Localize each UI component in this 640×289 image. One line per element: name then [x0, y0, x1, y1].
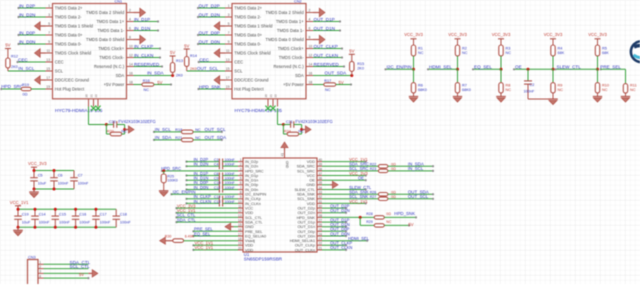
svg-text:IN_SCL: IN_SCL — [18, 66, 35, 71]
svg-text:24: 24 — [319, 232, 323, 236]
svg-text:37: 37 — [319, 172, 323, 176]
svg-text:OUT_SCL: OUT_SCL — [205, 127, 227, 132]
svg-text:0Ω: 0Ω — [23, 93, 28, 97]
svg-text:4: 4 — [309, 17, 311, 21]
svg-text:R24: R24 — [284, 129, 291, 133]
svg-text:17: 17 — [238, 232, 242, 236]
svg-text:TMDS Data 1+: TMDS Data 1+ — [276, 19, 304, 24]
svg-text:OUT_D0P: OUT_D0P — [199, 30, 220, 35]
svg-text:TMDS Data 0 Shield: TMDS Data 0 Shield — [86, 37, 125, 42]
svg-text:R23: R23 — [370, 167, 377, 171]
svg-text:11: 11 — [226, 49, 230, 53]
svg-text:12: 12 — [309, 53, 313, 57]
svg-text:VCC_1V1: VCC_1V1 — [349, 199, 368, 204]
svg-text:NC: NC — [462, 51, 468, 55]
svg-text:IN_D1N: IN_D1N — [134, 26, 150, 31]
svg-text:NC: NC — [121, 130, 127, 134]
svg-text:9: 9 — [240, 195, 242, 199]
svg-text:OUT_SDA: OUT_SDA — [205, 135, 228, 140]
svg-text:R30: R30 — [165, 235, 172, 239]
svg-text:VCC_1V1: VCC_1V1 — [10, 200, 29, 205]
svg-text:C11: C11 — [214, 186, 220, 190]
svg-text:R28: R28 — [366, 212, 373, 216]
svg-text:26: 26 — [319, 223, 323, 227]
svg-text:OUT_CLKP: OUT_CLKP — [314, 44, 338, 49]
svg-text:R29: R29 — [366, 220, 373, 224]
svg-text:VCC_3V3: VCC_3V3 — [448, 32, 467, 37]
svg-text:C17: C17 — [100, 212, 107, 216]
svg-text:PRE_SEL: PRE_SEL — [600, 65, 621, 70]
svg-text:OUT_SDA: OUT_SDA — [325, 71, 348, 76]
svg-text:TMDS Data 2+: TMDS Data 2+ — [234, 6, 262, 11]
svg-text:FV42X103K102EFG: FV42X103K102EFG — [118, 119, 155, 124]
svg-text:R9: R9 — [558, 83, 563, 87]
svg-text:R7: R7 — [462, 83, 467, 87]
svg-text:NC: NC — [558, 88, 564, 92]
svg-text:GND: GND — [285, 161, 289, 169]
svg-text:2: 2 — [309, 8, 311, 12]
svg-text:10: 10 — [129, 44, 133, 48]
svg-text:17: 17 — [46, 76, 50, 80]
svg-text:HPD_SRC: HPD_SRC — [1, 84, 24, 89]
svg-text:+5V Power: +5V Power — [104, 82, 125, 87]
svg-text:100nF: 100nF — [58, 181, 69, 185]
svg-text:R4: R4 — [558, 46, 563, 50]
svg-text:OUT_D0N: OUT_D0N — [199, 39, 220, 44]
svg-text:TMDS Data 1 Shield: TMDS Data 1 Shield — [55, 24, 94, 29]
svg-text:5: 5 — [240, 177, 242, 181]
svg-text:7: 7 — [228, 31, 230, 35]
svg-text:R16: R16 — [143, 79, 150, 83]
svg-text:CEC: CEC — [18, 57, 28, 62]
svg-text:C18: C18 — [120, 212, 127, 216]
svg-text:C5: C5 — [38, 173, 43, 177]
svg-text:21: 21 — [319, 246, 323, 250]
svg-text:RESERVED: RESERVED — [314, 62, 340, 67]
svg-text:17: 17 — [226, 76, 230, 80]
svg-text:IN_SDA: IN_SDA — [155, 135, 173, 140]
svg-text:OUT_CLKN: OUT_CLKN — [314, 53, 339, 58]
svg-text:10uF: 10uF — [38, 181, 47, 185]
svg-text:100nF: 100nF — [120, 220, 131, 224]
svg-text:14: 14 — [129, 62, 133, 66]
svg-text:I2C_EN/PIN: I2C_EN/PIN — [173, 190, 196, 195]
svg-text:8: 8 — [129, 35, 131, 39]
svg-text:100nF: 100nF — [59, 220, 70, 224]
svg-text:OUT_SCL: OUT_SCL — [197, 66, 219, 71]
svg-text:22: 22 — [319, 242, 323, 246]
svg-text:C15: C15 — [59, 212, 66, 216]
svg-text:R19: R19 — [22, 83, 29, 87]
svg-text:TMDS Data 2+: TMDS Data 2+ — [55, 6, 83, 11]
svg-text:IN_D0N: IN_D0N — [194, 185, 209, 190]
svg-text:OUT_D1P: OUT_D1P — [314, 17, 335, 22]
svg-text:2: 2 — [39, 265, 41, 269]
svg-text:4: 4 — [39, 274, 41, 278]
svg-text:SLEW_CTL: SLEW_CTL — [557, 65, 582, 70]
svg-text:NC: NC — [602, 88, 608, 92]
svg-text:NC: NC — [418, 51, 424, 55]
svg-text:VDD: VDD — [245, 247, 253, 252]
svg-text:R1: R1 — [418, 46, 423, 50]
svg-text:15: 15 — [238, 223, 242, 227]
svg-text:NC: NC — [144, 88, 150, 92]
svg-text:3: 3 — [48, 13, 50, 17]
svg-text:14: 14 — [309, 62, 313, 66]
svg-text:TMDS Data 1+: TMDS Data 1+ — [96, 19, 124, 24]
svg-text:C13: C13 — [214, 200, 221, 204]
svg-text:TMDS Data 1-: TMDS Data 1- — [277, 28, 304, 33]
svg-text:1: 1 — [228, 4, 230, 8]
svg-text:R10: R10 — [602, 83, 609, 87]
svg-text:SCL: SCL — [55, 69, 64, 74]
svg-text:VCC_3V3: VCC_3V3 — [544, 32, 563, 37]
svg-text:35: 35 — [319, 181, 323, 185]
svg-text:1: 1 — [48, 4, 50, 8]
svg-text:10uF: 10uF — [22, 220, 31, 224]
svg-text:IN_D1P: IN_D1P — [134, 17, 150, 22]
svg-text:100nF: 100nF — [39, 220, 50, 224]
svg-text:100nF: 100nF — [225, 177, 236, 181]
svg-text:R2: R2 — [462, 46, 467, 50]
svg-text:40: 40 — [319, 158, 323, 162]
svg-text:C21: C21 — [286, 120, 293, 124]
svg-text:100nF: 100nF — [524, 90, 535, 94]
svg-text:18: 18 — [129, 80, 133, 84]
svg-text:TMDS Clock Shield: TMDS Clock Shield — [55, 51, 92, 56]
svg-text:TMDS Clock-: TMDS Clock- — [99, 55, 124, 60]
svg-text:C8: C8 — [214, 172, 219, 176]
svg-text:16: 16 — [129, 71, 133, 75]
svg-text:1: 1 — [240, 158, 242, 162]
svg-text:28: 28 — [319, 214, 323, 218]
svg-text:6: 6 — [129, 26, 131, 30]
svg-text:29: 29 — [319, 209, 323, 213]
svg-text:C10: C10 — [214, 181, 221, 185]
svg-text:5V: 5V — [5, 43, 10, 48]
svg-text:OE: OE — [358, 176, 364, 181]
svg-text:100nF: 100nF — [79, 220, 90, 224]
svg-text:5: 5 — [228, 22, 230, 26]
svg-text:2K0: 2K0 — [190, 67, 197, 71]
svg-text:EQ_SEL: EQ_SEL — [474, 65, 492, 70]
svg-text:IN_D0N: IN_D0N — [19, 39, 35, 44]
svg-text:IN_SDA: IN_SDA — [147, 71, 165, 76]
svg-text:100nF: 100nF — [78, 181, 89, 185]
svg-text:68K: 68K — [602, 51, 609, 55]
svg-text:TMDS Data 1 Shield: TMDS Data 1 Shield — [234, 24, 273, 29]
svg-text:IN_CLKN: IN_CLKN — [194, 199, 212, 204]
svg-text:OUT_D0N: OUT_D0N — [330, 231, 350, 236]
svg-text:38: 38 — [319, 167, 323, 171]
svg-text:R14: R14 — [190, 54, 197, 58]
svg-text:CEC: CEC — [199, 57, 209, 62]
svg-text:30: 30 — [319, 205, 323, 209]
svg-text:NC: NC — [298, 130, 304, 134]
svg-text:6.49K: 6.49K — [185, 235, 195, 239]
svg-text:C2: C2 — [530, 83, 535, 87]
svg-text:VCC_1V1: VCC_1V1 — [195, 245, 214, 250]
svg-text:SDA: SDA — [116, 73, 125, 78]
svg-text:C20: C20 — [109, 120, 116, 124]
svg-text:16: 16 — [238, 228, 242, 232]
svg-text:5V: 5V — [79, 272, 84, 277]
svg-text:R17: R17 — [324, 79, 331, 83]
svg-text:TMDS Data 0-: TMDS Data 0- — [234, 42, 261, 47]
svg-text:12: 12 — [129, 53, 133, 57]
svg-text:C12: C12 — [214, 195, 221, 199]
svg-text:OUT_CLKn: OUT_CLKn — [295, 247, 315, 252]
svg-text:R27: R27 — [370, 195, 377, 199]
svg-text:R11: R11 — [630, 84, 637, 88]
svg-text:R12: R12 — [11, 54, 18, 58]
svg-text:2K0: 2K0 — [176, 74, 183, 78]
svg-text:13: 13 — [226, 58, 230, 62]
svg-text:3: 3 — [240, 167, 242, 171]
svg-text:TMDS Data 2 Shield: TMDS Data 2 Shield — [266, 10, 305, 15]
svg-text:100nF: 100nF — [225, 181, 236, 185]
svg-text:8: 8 — [240, 191, 242, 195]
svg-text:13: 13 — [46, 58, 50, 62]
svg-text:7: 7 — [240, 186, 242, 190]
svg-text:18: 18 — [238, 237, 242, 241]
svg-text:100nF: 100nF — [225, 163, 236, 167]
svg-text:39: 39 — [319, 163, 323, 167]
svg-text:3: 3 — [39, 270, 41, 274]
svg-text:19: 19 — [238, 242, 242, 246]
svg-text:100nF: 100nF — [225, 195, 236, 199]
svg-text:SDA_CTL: SDA_CTL — [177, 217, 197, 222]
svg-text:NC: NC — [506, 51, 512, 55]
svg-text:11: 11 — [238, 205, 242, 209]
svg-text:Reserved (N.C.): Reserved (N.C.) — [94, 64, 125, 69]
svg-text:C7: C7 — [78, 173, 83, 177]
svg-text:C19: C19 — [22, 212, 29, 216]
svg-text:25: 25 — [319, 228, 323, 232]
svg-text:TMDS Data 2-: TMDS Data 2- — [234, 15, 261, 20]
svg-text:68K0: 68K0 — [418, 88, 427, 92]
svg-text:2: 2 — [129, 8, 131, 12]
svg-text:27: 27 — [319, 219, 323, 223]
svg-text:32: 32 — [319, 195, 323, 199]
svg-text:23: 23 — [319, 237, 323, 241]
svg-text:TMDS Data 2 Shield: TMDS Data 2 Shield — [86, 10, 125, 15]
svg-text:100nF: 100nF — [225, 186, 236, 190]
svg-text:OUT_SCL: OUT_SCL — [408, 194, 429, 199]
svg-text:4: 4 — [129, 17, 131, 21]
svg-text:R5: R5 — [602, 46, 607, 50]
svg-text:VCC_3V3: VCC_3V3 — [588, 32, 607, 37]
svg-text:SCL_CTL: SCL_CTL — [70, 264, 91, 269]
svg-text:SN65DP159RSBR: SN65DP159RSBR — [244, 257, 283, 262]
svg-text:IN_D2N: IN_D2N — [19, 12, 35, 17]
svg-text:IN_SCL: IN_SCL — [408, 166, 424, 171]
svg-text:SCL: SCL — [234, 69, 243, 74]
svg-text:5V: 5V — [157, 80, 162, 85]
svg-text:34: 34 — [319, 186, 323, 190]
svg-text:68K0: 68K0 — [462, 88, 471, 92]
svg-text:2K0: 2K0 — [357, 67, 364, 71]
svg-text:NC: NC — [386, 220, 392, 224]
svg-text:33: 33 — [319, 191, 323, 195]
svg-text:HYC79-HDMIA19-105: HYC79-HDMIA19-105 — [235, 108, 283, 114]
svg-text:5: 5 — [48, 22, 50, 26]
svg-text:7: 7 — [48, 31, 50, 35]
svg-text:22: 22 — [94, 94, 98, 98]
svg-text:TMDS Clock-: TMDS Clock- — [279, 55, 304, 60]
svg-text:2K0: 2K0 — [11, 65, 18, 69]
svg-text:+5V Power: +5V Power — [283, 82, 304, 87]
svg-text:100nF: 100nF — [225, 158, 236, 162]
svg-text:HDMI_SEL: HDMI_SEL — [429, 65, 452, 70]
svg-text:TMDS Data 0+: TMDS Data 0+ — [234, 33, 262, 38]
svg-text:R13: R13 — [176, 59, 183, 63]
svg-text:8: 8 — [309, 35, 311, 39]
svg-text:IN_SCL: IN_SCL — [155, 127, 172, 132]
svg-text:19: 19 — [226, 85, 230, 89]
svg-text:OUT_D1N: OUT_D1N — [314, 26, 335, 31]
svg-text:10: 10 — [238, 200, 242, 204]
svg-text:15: 15 — [46, 67, 50, 71]
svg-text:R6: R6 — [418, 83, 423, 87]
svg-text:0Ω: 0Ω — [386, 212, 391, 216]
svg-text:5V: 5V — [349, 48, 354, 53]
svg-text:VCC_3V3: VCC_3V3 — [492, 32, 511, 37]
svg-text:HYC79-HDMIA19-105: HYC79-HDMIA19-105 — [55, 108, 103, 114]
svg-text:100nF: 100nF — [225, 172, 236, 176]
svg-text:15: 15 — [226, 67, 230, 71]
svg-text:31: 31 — [319, 200, 323, 204]
svg-text:68K: 68K — [558, 51, 565, 55]
svg-text:R8: R8 — [506, 83, 511, 87]
svg-text:VCC_3V3: VCC_3V3 — [28, 161, 47, 166]
svg-text:IN_CLKN: IN_CLKN — [134, 53, 153, 58]
svg-text:100K0: 100K0 — [167, 179, 177, 183]
svg-text:5V: 5V — [170, 50, 175, 55]
svg-text:R26: R26 — [370, 191, 377, 195]
svg-text:21: 21 — [269, 94, 273, 98]
svg-text:13: 13 — [238, 214, 242, 218]
svg-text:16: 16 — [309, 71, 313, 75]
svg-text:NC: NC — [630, 88, 636, 92]
svg-text:TMDS Data 0-: TMDS Data 0- — [55, 42, 82, 47]
svg-text:OUT_D2N: OUT_D2N — [330, 208, 350, 213]
svg-text:R15: R15 — [357, 62, 364, 66]
svg-text:CN2: CN2 — [294, 0, 302, 3]
svg-text:5V: 5V — [184, 43, 189, 48]
svg-text:HPD_SNK: HPD_SNK — [394, 211, 415, 216]
svg-text:EQ_SEL: EQ_SEL — [194, 231, 211, 236]
svg-text:CEC: CEC — [234, 60, 243, 65]
svg-text:FV42X103K102EFG: FV42X103K102EFG — [295, 119, 332, 124]
svg-text:5V: 5V — [339, 80, 344, 85]
svg-text:C16: C16 — [79, 212, 86, 216]
svg-text:2: 2 — [240, 163, 242, 167]
svg-text:CN1: CN1 — [115, 0, 123, 3]
svg-text:C9: C9 — [214, 177, 219, 181]
svg-text:20: 20 — [264, 94, 268, 98]
svg-text:6: 6 — [240, 181, 242, 185]
svg-text:IN_D0P: IN_D0P — [19, 30, 35, 35]
svg-text:I2C_EN/PIN: I2C_EN/PIN — [387, 65, 412, 70]
svg-text:IN_D2P: IN_D2P — [19, 3, 35, 8]
svg-text:9: 9 — [48, 40, 50, 44]
svg-text:18: 18 — [309, 80, 313, 84]
svg-text:TMDS Data 0+: TMDS Data 0+ — [55, 33, 83, 38]
svg-text:VCC_3V3: VCC_3V3 — [404, 32, 423, 37]
svg-text:C3: C3 — [214, 158, 219, 162]
svg-text:OUT_D2P: OUT_D2P — [199, 3, 220, 8]
svg-text:100nF: 100nF — [100, 220, 111, 224]
svg-text:41: 41 — [280, 153, 284, 157]
svg-text:36: 36 — [319, 177, 323, 181]
svg-text:OE: OE — [515, 65, 522, 70]
svg-text:DDC/CEC Ground: DDC/CEC Ground — [55, 78, 90, 83]
svg-text:TMDS Clock Shield: TMDS Clock Shield — [234, 51, 271, 56]
svg-text:20: 20 — [238, 246, 242, 250]
svg-text:R20: R20 — [107, 129, 114, 133]
svg-text:11: 11 — [46, 49, 50, 53]
svg-text:9: 9 — [228, 40, 230, 44]
svg-text:4: 4 — [240, 172, 242, 176]
svg-text:TMDS Clock+: TMDS Clock+ — [278, 46, 304, 51]
svg-text:21: 21 — [90, 94, 94, 98]
svg-text:IN_CLKP: IN_CLKP — [134, 44, 153, 49]
svg-text:10: 10 — [309, 44, 313, 48]
svg-text:Hot Plug Detect: Hot Plug Detect — [55, 87, 85, 92]
svg-text:12: 12 — [238, 209, 242, 213]
svg-text:TMDS Data 2-: TMDS Data 2- — [55, 15, 82, 20]
svg-text:TMDS Data 0 Shield: TMDS Data 0 Shield — [266, 37, 305, 42]
svg-text:TMDS Data 1-: TMDS Data 1- — [97, 28, 124, 33]
svg-text:IN_D2N: IN_D2N — [194, 162, 209, 167]
svg-text:14: 14 — [238, 219, 242, 223]
svg-text:6: 6 — [309, 26, 311, 30]
svg-text:22: 22 — [274, 94, 278, 98]
svg-text:NC: NC — [506, 88, 512, 92]
svg-text:OUT_CLKN: OUT_CLKN — [330, 245, 352, 250]
svg-text:C6: C6 — [58, 173, 63, 177]
svg-text:Reserved (N.C.): Reserved (N.C.) — [273, 64, 304, 69]
svg-text:100nF: 100nF — [225, 200, 236, 204]
svg-text:RESERVED: RESERVED — [134, 62, 160, 67]
svg-text:OUT_D2N: OUT_D2N — [199, 12, 220, 17]
svg-text:C4: C4 — [214, 163, 219, 167]
svg-text:NC: NC — [325, 88, 331, 92]
svg-text:R22: R22 — [370, 163, 377, 167]
svg-text:CEC: CEC — [55, 60, 64, 65]
svg-text:19: 19 — [46, 85, 50, 89]
svg-text:C14: C14 — [39, 212, 46, 216]
svg-text:CN3: CN3 — [28, 255, 36, 259]
svg-text:Hot Plug Detect: Hot Plug Detect — [234, 87, 264, 92]
svg-text:TMDS Clock+: TMDS Clock+ — [98, 46, 124, 51]
svg-text:R3: R3 — [506, 46, 511, 50]
svg-text:5V: 5V — [408, 222, 413, 227]
svg-text:DDC/CEC Ground: DDC/CEC Ground — [234, 78, 269, 83]
svg-text:20: 20 — [85, 94, 89, 98]
svg-text:3: 3 — [228, 13, 230, 17]
svg-text:HPD_SNK: HPD_SNK — [199, 84, 222, 89]
svg-text:SDA: SDA — [295, 73, 304, 78]
